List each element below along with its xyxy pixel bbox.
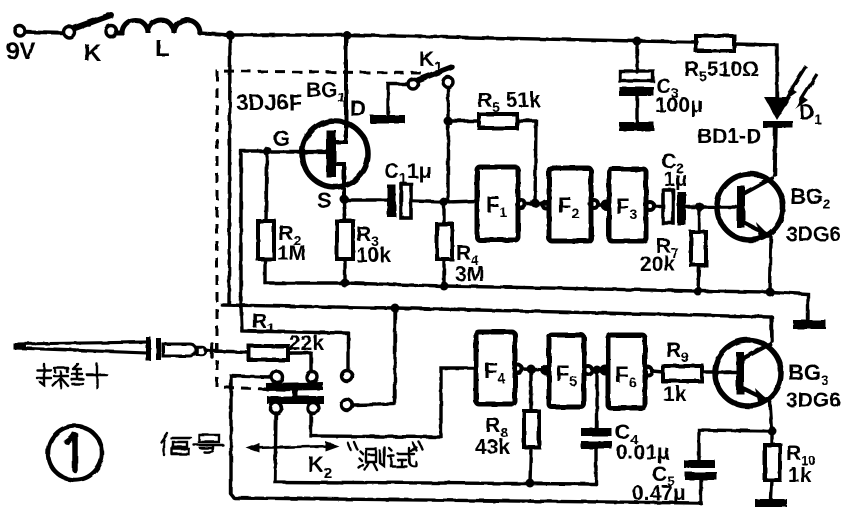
resistor R4 3M — [437, 204, 484, 286]
diode D1 photodiode — [697, 97, 822, 175]
svg-text:0.01μ: 0.01μ — [616, 441, 670, 464]
wire K2 row2 mid to F4 input — [311, 368, 476, 437]
wire F4 to F5 — [522, 369, 546, 370]
wire K1 to ground — [388, 84, 408, 116]
node R7 on line1 — [694, 287, 703, 296]
transistor BG3 3DG6 — [715, 317, 841, 431]
resistor R10 1k — [765, 433, 816, 499]
wire K2 row2 left to busA — [275, 413, 596, 484]
switch K2 — [266, 371, 353, 483]
wire left vertical from top rail — [229, 35, 230, 304]
dashed box oscillator section — [217, 71, 421, 390]
node line2 to K2 — [391, 304, 400, 313]
wire F3 to C2 — [654, 204, 663, 207]
wire C5 bottom to bottom bus — [699, 480, 702, 503]
svg-text:G: G — [273, 126, 290, 151]
node source S — [340, 195, 349, 204]
wire R9 to BG3 base — [702, 370, 736, 373]
svg-text:1k: 1k — [663, 383, 687, 406]
node C2/R7 — [696, 203, 705, 212]
node F1 output — [531, 199, 540, 208]
capacitor C3 100u — [619, 43, 703, 122]
node R4 on line1 — [440, 282, 449, 291]
capacitor C2 1u — [661, 150, 687, 225]
ground bar line1 — [793, 320, 826, 329]
gate F4 — [476, 332, 522, 404]
svg-text:3DG6: 3DG6 — [786, 223, 841, 246]
resistor R6 510ohm — [684, 36, 759, 84]
node K1/R5 — [444, 117, 453, 126]
svg-text:1μ: 1μ — [664, 169, 687, 191]
svg-text:C11μ: C11μ — [384, 160, 432, 186]
node R3 on line1 — [341, 279, 350, 288]
resistor R8 43k — [475, 371, 539, 483]
wire F2 to F3 — [598, 203, 606, 206]
node F5 output — [593, 366, 602, 375]
node top rail C3 — [633, 37, 642, 46]
wire F1 to F2 — [525, 202, 546, 205]
switch K — [64, 15, 117, 67]
capacitor C4 0.01u — [581, 372, 670, 484]
wire line1 ground bus — [265, 283, 808, 319]
wire G node left and down to line2 — [241, 151, 267, 306]
wire K2 lower right to line2 — [353, 308, 395, 405]
svg-text:R5 51k: R5 51k — [477, 89, 541, 115]
node top rail drain — [343, 31, 351, 39]
wire F5 to F6 — [592, 368, 605, 371]
switch K1 — [408, 48, 453, 89]
gate F6 — [602, 335, 653, 408]
svg-text:K: K — [84, 40, 102, 67]
svg-text:R5510Ω: R5510Ω — [684, 58, 759, 84]
figure number circled 1 — [48, 426, 102, 480]
node C1/R4/F1 — [440, 198, 449, 207]
svg-text:0.47μ: 0.47μ — [632, 482, 686, 505]
transistor BG1 FET 3DJ6F — [236, 36, 368, 213]
gate F1 — [477, 167, 525, 240]
wire R1 to K2 row1 right — [288, 353, 311, 371]
wire line2 gate bus — [222, 305, 772, 341]
capacitor C1 1u — [348, 160, 444, 218]
wire C2 to BG2 base — [686, 205, 737, 208]
node R8 on busA — [526, 479, 535, 488]
svg-text:D: D — [350, 96, 366, 121]
svg-text:1M: 1M — [277, 242, 306, 265]
gate F2 — [543, 168, 599, 241]
annotation arrow xinhao/ceshi — [246, 441, 339, 453]
resistor R5 51k — [452, 89, 541, 128]
wire K1 down to C1-F1 node — [446, 87, 449, 202]
light arrows into D1 — [784, 66, 817, 109]
svg-text:3DG6: 3DG6 — [786, 389, 841, 412]
svg-text:20k: 20k — [640, 253, 675, 276]
svg-text:BD1-D: BD1-D — [697, 125, 761, 148]
svg-text:43k: 43k — [475, 436, 510, 459]
node F4 output — [527, 365, 536, 374]
inductor L — [117, 20, 200, 62]
node BG2 emitter on line1 — [766, 288, 775, 297]
svg-text:S: S — [317, 188, 332, 213]
svg-text:10k: 10k — [356, 244, 391, 267]
label ceshi — [348, 442, 422, 470]
label probe tanzhen — [37, 364, 107, 388]
node top rail left — [226, 31, 235, 40]
svg-text:L: L — [155, 35, 170, 62]
ground bar R10 — [755, 499, 787, 507]
resistor R1 22k — [249, 310, 324, 360]
transistor BG2 3DG6 — [717, 128, 841, 292]
svg-text:3M: 3M — [455, 263, 484, 286]
wire R6 to D1 — [734, 44, 777, 97]
resistor R3 10k — [337, 203, 391, 283]
wire gate to G node — [267, 150, 302, 153]
resistor R2 1M — [258, 155, 306, 283]
gate F5 — [543, 335, 593, 407]
battery terminal 9V — [15, 26, 25, 36]
svg-text:1k: 1k — [788, 464, 812, 487]
label xinhao — [161, 433, 223, 455]
wire emitter to C5 — [699, 430, 772, 460]
wire line2 to K2 upper right contact — [241, 306, 348, 370]
gate F3 — [603, 169, 655, 241]
wire top rail — [199, 33, 697, 42]
node BG3 emitter — [768, 427, 777, 436]
probe needle — [13, 337, 212, 361]
wire R5 to F1 output — [517, 121, 536, 203]
resistor R9 1k — [652, 339, 702, 406]
svg-text:9V: 9V — [6, 38, 35, 65]
wire probe to R1 — [212, 351, 249, 352]
ground bar K1 — [370, 115, 405, 124]
capacitor C5 0.47u — [632, 460, 717, 505]
wire C1 node to F1 — [448, 201, 477, 202]
wire battery to switch K — [25, 32, 63, 33]
svg-text:3DJ6F: 3DJ6F — [236, 90, 302, 115]
wire K2 row1 left to bottom bus — [231, 376, 701, 503]
ground bar C3 — [619, 122, 654, 131]
resistor R7 20k — [640, 209, 706, 291]
node gate G — [263, 147, 272, 156]
svg-text:100μ: 100μ — [655, 94, 703, 117]
